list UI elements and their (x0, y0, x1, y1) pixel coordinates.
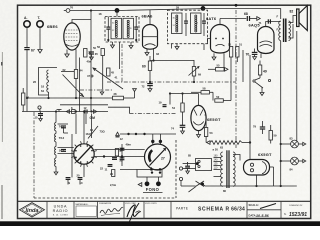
svg-text:S. A. COMO: S. A. COMO (53, 213, 68, 216)
label GM (90, 116, 96, 120)
svg-text:50: 50 (93, 46, 96, 50)
screen resistor 38 (84, 49, 92, 58)
svg-text:44: 44 (80, 69, 83, 73)
capacitor 35 (89, 52, 98, 56)
bus segment upper (60, 104, 108, 106)
svg-text:6BE6: 6BE6 (47, 24, 58, 29)
svg-text:54: 54 (172, 106, 175, 110)
B+ vertical from output transformer (280, 41, 282, 186)
coupling wire plate 6AT6 (220, 18, 246, 20)
label 6X5GT (258, 152, 272, 157)
svg-text:85: 85 (188, 154, 191, 158)
output transformer (277, 15, 291, 42)
tuner shield dash right x176 (175, 140, 177, 198)
dash-dot into tuner (130, 113, 177, 115)
capacitor 72 (142, 84, 153, 89)
svg-text:PARTE: PARTE (176, 207, 189, 211)
padder resistor 62-44 (63, 68, 83, 79)
svg-text:T6.2: T6.2 (59, 136, 65, 140)
label 6E5GT (207, 117, 221, 122)
capacitor 67 (24, 48, 35, 53)
label 47 (87, 74, 93, 78)
resistor 63 with arrow (207, 141, 252, 150)
company name UNDA RADIO (53, 205, 69, 217)
svg-text:ø 20: ø 20 (213, 147, 219, 151)
6BA6 cathode ground (145, 49, 149, 56)
mains filter cap 85 (185, 154, 191, 174)
svg-text:10-5-56: 10-5-56 (256, 214, 270, 218)
IF2 bottom leads (172, 44, 205, 50)
wire y134 (120, 133, 176, 135)
svg-text:84: 84 (290, 168, 293, 172)
capacitor 71 (259, 19, 271, 25)
svg-text:70: 70 (246, 53, 250, 57)
tuner shield dash left x34 (33, 112, 35, 198)
speaker leads (288, 16, 296, 39)
ground 74 (181, 127, 185, 134)
resistor 49 (258, 61, 266, 76)
svg-text:80: 80 (223, 189, 226, 193)
mixer bias diagonal 40a (93, 68, 123, 89)
terminal A (24, 16, 30, 27)
padder cluster caps right of switch (112, 143, 131, 163)
svg-text:6X5GT: 6X5GT (258, 152, 272, 157)
title block dividers (47, 201, 281, 218)
svg-text:VISTO CONTR.: VISTO CONTR. (145, 203, 158, 205)
ground cap70 (253, 54, 257, 59)
label 6AT6 (206, 16, 217, 21)
IF transformer can 2 (168, 10, 208, 44)
tube 6AQ5 (258, 27, 275, 54)
svg-text:33: 33 (156, 52, 159, 56)
ground 35 (90, 54, 94, 60)
junction dots tuner wiring (103, 133, 161, 174)
tube 6BA6 (143, 25, 158, 50)
svg-text:18: 18 (99, 12, 102, 16)
label 40a (87, 60, 92, 64)
parte cell (176, 206, 245, 212)
resistor 28 (113, 92, 124, 100)
svg-text:SCALA:: SCALA: (249, 203, 259, 207)
label 6BE6 (47, 24, 58, 29)
ground T (38, 50, 42, 54)
svg-text:26: 26 (33, 80, 36, 84)
svg-text:27: 27 (161, 157, 165, 161)
resistor 59 (269, 125, 277, 144)
svg-text:49: 49 (263, 70, 267, 74)
svg-text:12: 12 (120, 137, 123, 141)
FONO input (138, 181, 162, 192)
scan edge marks left (1, 52, 3, 219)
title block top rule (18, 200, 311, 202)
6E5GT top feed wire (108, 92, 199, 113)
IF1 primary winding (111, 18, 122, 39)
IF2 primary winding (172, 13, 183, 34)
resistor 55 (216, 63, 225, 71)
antenna coil 16.2 (55, 134, 65, 142)
tuner vertical wire (71, 134, 73, 177)
6AQ5 cathode lead (260, 54, 262, 58)
volume pot 69 (189, 67, 202, 77)
dial lamp 83 (280, 137, 306, 148)
FONO pickup box (120, 168, 162, 181)
6X5GT leads (233, 155, 274, 187)
svg-text:51: 51 (239, 42, 242, 46)
6E5GT cathode ground (197, 131, 201, 138)
svg-text:FONO: FONO (146, 187, 160, 192)
svg-text:56: 56 (97, 45, 100, 49)
antenna coil 16.3 (55, 147, 65, 155)
6AT6 lead down (223, 53, 225, 67)
svg-text:28: 28 (114, 92, 117, 96)
svg-text:52: 52 (216, 95, 219, 99)
svg-text:SCHEMA: SCHEMA (198, 206, 224, 212)
wires 50 51 down (231, 57, 237, 101)
wires 58-52 (191, 92, 231, 100)
terminal T (37, 16, 43, 27)
IF2 trimmer cap right (202, 13, 206, 36)
junction dots buses (47, 81, 195, 113)
label phi20 (213, 147, 219, 151)
labels osc coil (33, 80, 44, 93)
resistor 52 (215, 95, 224, 102)
svg-text:29: 29 (176, 6, 179, 10)
mains taps (214, 155, 221, 177)
vertical x119.5 (119, 42, 121, 69)
capacitor 15 (35, 114, 44, 122)
svg-text:N.: N. (284, 213, 287, 216)
tube 6E5GT magic eye (191, 94, 206, 131)
svg-text:125: 125 (214, 163, 219, 166)
tone switch (253, 75, 271, 88)
linda logo diamond (20, 203, 45, 217)
signature 2 (127, 203, 141, 222)
resistors 50 51 vertical pair (228, 42, 242, 57)
dial lamp 84 (280, 157, 306, 171)
svg-text:49m: 49m (126, 143, 132, 147)
AVC bus dash-dot y111.5 (22, 111, 108, 113)
svg-text:19: 19 (159, 101, 162, 105)
label 29 (176, 6, 179, 10)
materiale cell (76, 203, 97, 217)
svg-text:DISEGNATORE: DISEGNATORE (99, 202, 112, 205)
chassis dash-dot vertical left IF1 (121, 44, 123, 82)
svg-text:110: 110 (214, 167, 218, 170)
svg-text:6BA6: 6BA6 (142, 14, 154, 19)
caps 20 9 10 (66, 174, 83, 185)
6BA6 top lead (149, 10, 151, 24)
tube 6BE6 (64, 23, 80, 50)
rotary switch stem (83, 110, 85, 177)
svg-text:53: 53 (210, 131, 213, 135)
junction dots IF1 bottom (107, 39, 137, 41)
caps 22 21 (100, 165, 115, 177)
chassis dash-dot horizontal y82 (107, 81, 236, 83)
svg-text:6E5GT: 6E5GT (207, 117, 221, 122)
tube 6AT6 (211, 25, 230, 54)
svg-text:82: 82 (290, 10, 294, 14)
disegno cell (284, 205, 307, 218)
mains terminals (177, 167, 183, 181)
junction dot frame top (235, 4, 238, 7)
long vertical x243 (242, 50, 244, 82)
wire 67 down to bus (26, 50, 28, 112)
svg-text:2,5m: 2,5m (110, 183, 117, 187)
wire A down (26, 27, 28, 47)
black scan bar bottom (0, 221, 320, 226)
svg-text:linda: linda (25, 208, 38, 214)
svg-text:R 66/34: R 66/34 (226, 206, 246, 212)
6AQ5 plate lead to transformer (266, 22, 281, 27)
svg-text:73Ω: 73Ω (100, 130, 106, 134)
speaker 82 (290, 6, 308, 31)
label 12 cap (116, 132, 124, 141)
6BE6 top lead (72, 20, 91, 23)
voltage selector plate (183, 159, 212, 171)
wire T down (39, 27, 41, 49)
ground mid (100, 89, 104, 95)
wire 56 to ground (102, 56, 104, 90)
top wire (70, 9, 203, 11)
IF1 grounds (111, 42, 134, 49)
tuning cap stubs top (151, 134, 162, 145)
svg-text:41: 41 (115, 76, 118, 80)
rotary switch contact dots (75, 145, 93, 163)
tube 6X5GT rectifier (244, 160, 270, 176)
wire AVC vertical x91 (90, 9, 92, 111)
resistor 54 (172, 94, 184, 126)
capacitor 74 (171, 125, 185, 130)
svg-text:~: ~ (177, 173, 179, 177)
pointer diagonal to switch (88, 126, 98, 139)
label 2,5m (110, 183, 117, 187)
svg-text:74: 74 (171, 127, 174, 131)
coil link wires (54, 110, 58, 174)
pot wires (193, 60, 195, 82)
IF2 secondary winding (191, 13, 202, 34)
IF2 ground (175, 44, 179, 50)
svg-text:55: 55 (217, 63, 220, 67)
mixer grid components row on AVC bus (66, 106, 96, 114)
variable arrow osc (63, 75, 84, 97)
svg-text:RADIO: RADIO (53, 209, 69, 213)
capacitor 68 (244, 12, 250, 21)
bottom bus y186 (205, 185, 297, 187)
IF1 secondary winding (123, 18, 134, 39)
capacitor 79 (253, 121, 265, 134)
label 6BA6 (142, 14, 154, 19)
oscillator section verticals (76, 58, 92, 139)
tuner shield dash bottom y198 (34, 197, 176, 199)
label 50 (93, 46, 96, 50)
label 14 (90, 128, 93, 132)
coil-switch link wires (58, 124, 74, 154)
label 18 (99, 12, 102, 16)
signature cell headers (99, 202, 158, 205)
svg-text:76: 76 (70, 6, 73, 10)
rotary switch 26 (71, 141, 97, 167)
resistor 56 (97, 45, 104, 56)
label 18-D (86, 132, 92, 136)
tone switch ground (260, 88, 264, 96)
svg-text:67: 67 (31, 48, 35, 52)
coil trimmer caps (61, 126, 66, 151)
wires around 60 (149, 56, 151, 84)
chassis dash-dot vertical x236 (235, 10, 237, 148)
svg-text:GM: GM (90, 116, 96, 120)
terminal 76 (64, 6, 74, 13)
phono earth terminal (38, 106, 41, 114)
oscillator coil assembly (39, 68, 58, 96)
6AT6 cathode ground (212, 53, 216, 60)
svg-text:68: 68 (244, 12, 248, 16)
IF transformer can 1 (105, 17, 139, 43)
svg-text:160: 160 (214, 155, 219, 158)
IF2 trimmer cap left (184, 13, 188, 36)
svg-text:72: 72 (142, 85, 145, 89)
label 41 (115, 76, 118, 80)
svg-text:79: 79 (253, 125, 256, 129)
svg-text:71: 71 (259, 21, 262, 25)
IF1 trimmer cap left (106, 17, 110, 43)
antenna coil 16.1 (55, 123, 65, 131)
svg-text:18: 18 (41, 85, 44, 89)
svg-text:35: 35 (95, 52, 98, 56)
capacitor 70 (246, 49, 258, 57)
arrow left 55 (208, 68, 228, 72)
6AT6 top lead (219, 19, 221, 25)
stage B+ wire y60.5 (150, 59, 194, 61)
6BE6 cathode lead + ground (65, 50, 69, 58)
scala cell (249, 203, 277, 218)
top wire to output transformer (203, 9, 281, 19)
svg-text:60: 60 (142, 65, 146, 69)
svg-text:63: 63 (220, 145, 223, 149)
wire after 28 + ground (124, 89, 137, 98)
IF1 trimmer cap right (134, 17, 138, 43)
tuning capacitor 27 (145, 144, 171, 170)
svg-text:83: 83 (290, 137, 293, 141)
svg-text:6AT6: 6AT6 (206, 16, 217, 21)
long vertical x250 to rectifier (249, 55, 251, 160)
ground 72 (148, 86, 152, 92)
svg-text:50: 50 (228, 42, 231, 46)
resistor 60 (142, 61, 152, 71)
wire osc coil to bus (49, 72, 75, 99)
resistor 53 (204, 115, 213, 143)
6BE6 lead to osc coil (75, 49, 77, 57)
chassis dash-dot y90 left (80, 89, 112, 91)
svg-text:69: 69 (198, 73, 201, 77)
resistor 36 (22, 88, 30, 112)
junction dot top2 (201, 6, 206, 11)
power transformer (221, 150, 236, 193)
resistor 58 (201, 87, 210, 94)
svg-text:58: 58 (203, 87, 206, 91)
svg-text:1523/91: 1523/91 (289, 212, 307, 218)
svg-text:15: 15 (35, 116, 38, 120)
resistor 45 (107, 68, 115, 76)
trimmer column 24 23 (120, 144, 125, 166)
svg-text:12: 12 (84, 106, 87, 110)
svg-text:A.: A. (24, 16, 27, 20)
link wires switch-tuning (94, 150, 145, 157)
6BA6 lead down (153, 49, 155, 61)
antenna coil 16.4 (55, 158, 56, 166)
svg-text:T.: T. (38, 16, 41, 20)
label 73ohm (100, 130, 106, 134)
capacitor 19 (159, 101, 167, 107)
tap mark left of bus row (57, 110, 62, 112)
svg-text:20: 20 (77, 174, 80, 178)
signature 1 (100, 207, 123, 215)
svg-text:47: 47 (87, 74, 90, 78)
svg-text:MATERIALE:: MATERIALE: (76, 203, 89, 206)
svg-text:64: 64 (41, 89, 44, 93)
tuning cap stubs bottom (152, 167, 161, 169)
6AT6 grid lead (208, 39, 211, 44)
arrow right after 68 (250, 17, 261, 21)
svg-text:40a: 40a (87, 60, 92, 64)
svg-text:DISEGNO N°: DISEGNO N° (289, 205, 302, 207)
label 6AQ5 (249, 22, 261, 27)
svg-text:45: 45 (111, 71, 114, 75)
wire 6BE6 to osc (75, 58, 77, 99)
svg-text:59: 59 (274, 134, 277, 138)
svg-text:140: 140 (214, 159, 219, 162)
mains switch (181, 181, 205, 192)
bus wire y98 (26, 97, 113, 99)
svg-text:22: 22 (100, 166, 103, 170)
vertical wire x296 right (296, 31, 298, 141)
label 33 (156, 52, 159, 56)
junction dot top1 (115, 8, 120, 17)
